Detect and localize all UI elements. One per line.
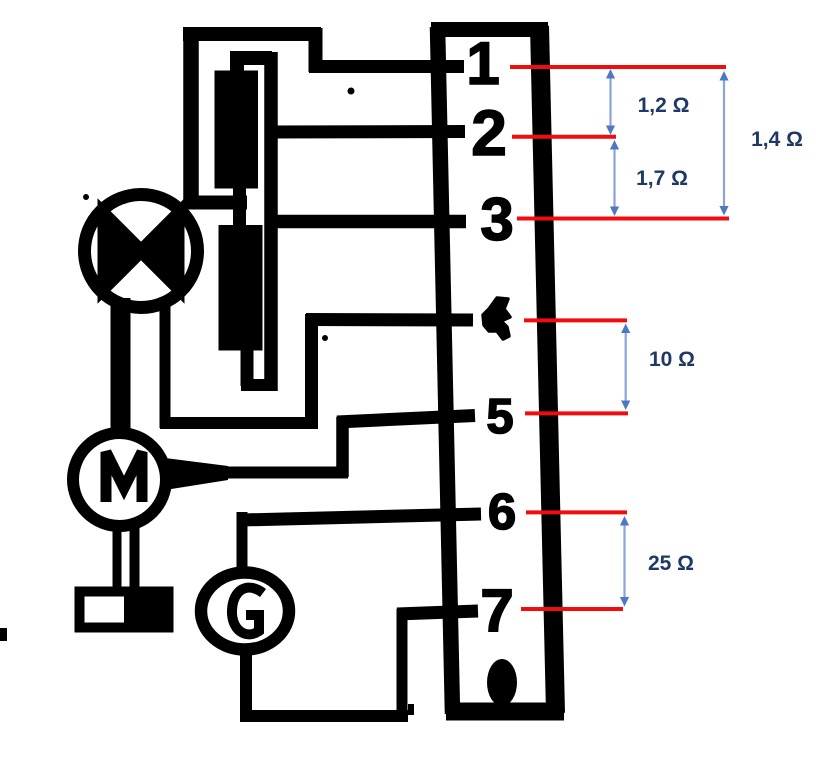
measurement labels (636, 94, 803, 575)
connector body right wall (540, 26, 556, 713)
wire G top riser (237, 512, 248, 572)
wire bulb to motor (111, 298, 131, 434)
svg-text:1,2 Ω: 1,2 Ω (638, 94, 690, 117)
wire step vertical to pin1 (309, 28, 323, 72)
wire top horizontal pin1 loop (183, 27, 321, 41)
svg-text:7: 7 (480, 577, 513, 644)
wire vertical pin7 riser (397, 609, 408, 721)
speck below pin4 wire (322, 335, 328, 341)
motor M1 circle (73, 433, 166, 526)
svg-text:25 Ω: 25 Ω (648, 552, 694, 575)
speck near bottom wall (408, 704, 414, 715)
wire left vertical (183, 27, 199, 209)
speck near R1 right (348, 88, 355, 95)
generator G1 letter (232, 588, 263, 635)
wire pin 3 (265, 215, 466, 229)
pin labels (466, 30, 516, 644)
wire pin 7 (397, 611, 478, 614)
dimension arrow 1-3 (719, 71, 728, 216)
wire horizontal bulb to pin4 (160, 417, 317, 429)
speck left of lamp (83, 194, 89, 200)
svg-text:6: 6 (488, 483, 516, 540)
wire junction-A horizontal (184, 196, 247, 210)
dimension arrow 4-5 (621, 324, 630, 411)
resistor R1-R2 stub (233, 184, 246, 229)
svg-text:5: 5 (486, 390, 513, 444)
svg-text:2: 2 (471, 97, 507, 169)
svg-text:10 Ω: 10 Ω (649, 348, 695, 371)
resistor R2 bottom stub (241, 348, 254, 386)
resistor R2 (219, 225, 263, 351)
lamp L1 cross (103, 213, 179, 289)
motor M1 bottom double wire (113, 527, 122, 590)
svg-text:1: 1 (466, 30, 499, 97)
red measure line pin5 (525, 411, 628, 415)
wire pin 2 (265, 125, 465, 139)
wire bottom horizontal (240, 710, 408, 722)
wire vertical pin4 drop (305, 314, 318, 429)
wire pin 4 (306, 313, 473, 327)
resistor R1 (215, 71, 259, 189)
wire G bottom drop (240, 650, 252, 722)
wire pin 5 (337, 416, 475, 423)
svg-text:1,4 Ω: 1,4 Ω (751, 128, 803, 151)
red measure line pin7 (521, 607, 623, 611)
red measure line pin4 (524, 318, 627, 322)
wire motor nub horizontal (218, 467, 348, 479)
connector body bottom wall (446, 703, 564, 721)
pin 8 label (487, 659, 517, 706)
wire mid vertical node B (264, 52, 278, 391)
red measure line pin1 (510, 65, 726, 69)
svg-text:3: 3 (480, 186, 513, 253)
motor M1 letter (106, 452, 142, 502)
resistor R1 top stub (230, 51, 244, 76)
lamp L1 circle (85, 195, 198, 308)
battery / ground block (80, 592, 169, 628)
dimension arrow 2-3 (610, 140, 619, 216)
wire pin 1 (309, 60, 464, 73)
wire bulb right drop (160, 297, 171, 428)
wire R1-top horizontal (230, 51, 272, 65)
svg-text:1,7 Ω: 1,7 Ω (636, 167, 688, 190)
dimension arrow 6-7 (620, 516, 629, 607)
connector body top wall (431, 22, 548, 37)
generator G1 circle (201, 573, 289, 650)
red measure line pin2 (512, 135, 616, 139)
wire pin 6 (242, 514, 481, 520)
motor M1 right nub (165, 458, 228, 490)
red measure line pin6 (526, 510, 627, 514)
pin 4 label (483, 298, 510, 339)
speck at left edge (0, 628, 7, 641)
dimension arrow 1-2 (606, 69, 615, 135)
connector body left wall (438, 27, 453, 714)
red measure line pin3 (517, 217, 729, 221)
wire vertical pin5 riser (336, 417, 349, 477)
wire U-turn horizontal (241, 379, 277, 391)
